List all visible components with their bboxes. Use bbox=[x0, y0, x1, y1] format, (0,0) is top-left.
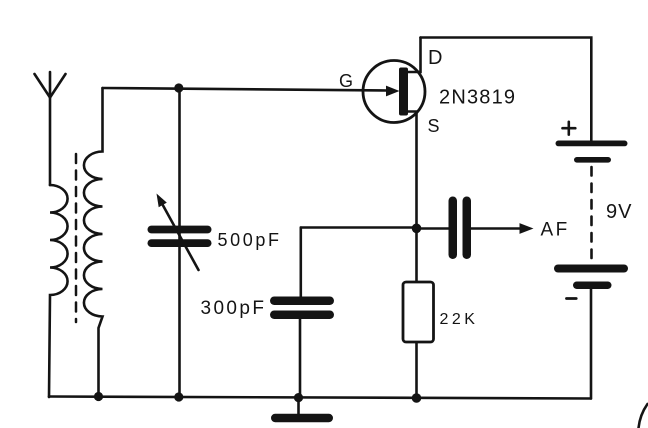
svg-text:G: G bbox=[339, 71, 353, 91]
svg-text:9V: 9V bbox=[606, 201, 632, 223]
svg-text:22K: 22K bbox=[440, 311, 479, 328]
svg-text:500pF: 500pF bbox=[218, 230, 282, 250]
svg-text:S: S bbox=[428, 116, 440, 136]
svg-text:2N3819: 2N3819 bbox=[439, 87, 516, 109]
svg-text:AF: AF bbox=[541, 220, 570, 241]
svg-text:300pF: 300pF bbox=[201, 298, 267, 319]
svg-text:D: D bbox=[428, 47, 442, 69]
